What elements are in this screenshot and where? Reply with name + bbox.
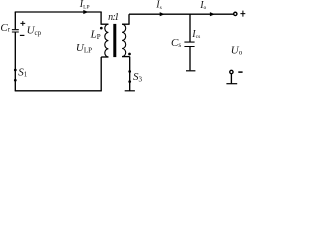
plus sign at output — [240, 11, 245, 17]
wire: left vertical from Cr through switch S1 to bottom rail — [14, 33, 16, 91]
node dot S3 bottom — [128, 80, 131, 83]
wire: left vertical from rail into capacitor Cr — [14, 12, 16, 29]
wire: secondary drop through switch S3 — [129, 57, 131, 91]
wire: primary top drop — [100, 12, 102, 24]
terminal bar under minus terminal — [226, 83, 237, 85]
minus sign at Cr — [20, 34, 25, 36]
wire: Cs branch vertical upper — [189, 14, 191, 42]
wire: top-right rail to output — [129, 13, 234, 15]
node dot S1 top — [14, 69, 17, 72]
terminal bar under S3 — [125, 90, 135, 92]
wire: top-left rail from Cr top to primary top — [15, 11, 102, 13]
inductor secondary winding — [122, 24, 126, 56]
node dot S1 bottom — [14, 79, 17, 82]
inductor LP primary winding — [105, 24, 109, 57]
wire: primary top jog — [101, 23, 109, 25]
plus sign at Cr — [20, 21, 25, 26]
wire: secondary bottom jog — [122, 56, 130, 58]
transformer core — [113, 24, 116, 57]
polarity dot secondary — [128, 53, 131, 56]
terminal bar under Cs — [186, 70, 195, 72]
node dot S3 top — [128, 70, 131, 73]
wire: minus terminal stub — [230, 74, 232, 84]
output terminal plus — [234, 12, 237, 15]
output terminal minus — [230, 70, 233, 73]
capacitor Cs plates — [184, 42, 194, 46]
minus sign at output — [238, 71, 242, 73]
wire: primary bottom jog — [101, 56, 108, 58]
wire: secondary top drop from right rail — [128, 14, 130, 24]
wire: primary bottom drop to bottom rail — [100, 57, 102, 91]
wire: bottom rail — [15, 90, 102, 92]
wire: Cs branch vertical lower — [189, 47, 191, 70]
current arrow Io — [210, 12, 215, 16]
polarity dot primary — [100, 27, 103, 30]
current arrow ILP — [83, 10, 88, 14]
wire: secondary top jog — [122, 23, 130, 25]
current arrow Is — [160, 12, 165, 16]
capacitor Cr plates — [12, 30, 19, 32]
svg-text:1: 1 — [114, 12, 119, 23]
